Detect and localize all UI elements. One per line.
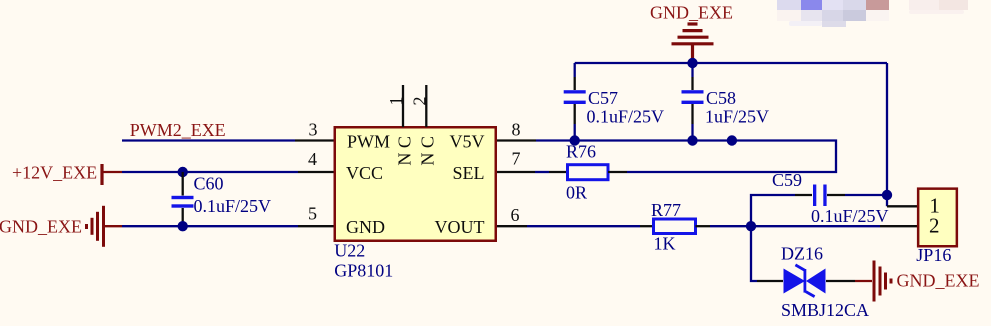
- svg-text:GND_EXE: GND_EXE: [650, 3, 733, 23]
- wire +12V to pin4: [122, 171, 298, 173]
- resistor R77: [640, 200, 710, 254]
- connector JP16: [916, 189, 957, 265]
- junction C59 right: [882, 190, 892, 200]
- svg-text:5: 5: [308, 204, 317, 224]
- wire PWM2_EXE to pin3: [122, 139, 295, 141]
- watermark blur: [777, 0, 968, 27]
- diode DZ16 TVS symbol: [781, 244, 869, 320]
- ground GND_EXE top symbol: [672, 24, 714, 64]
- junction C60 top: [178, 167, 188, 177]
- port +12V_EXE: [12, 163, 122, 186]
- diode DZ16 lead right: [826, 280, 855, 282]
- wire C59 to right rail: [845, 194, 887, 196]
- svg-text:GP8101: GP8101: [334, 260, 393, 280]
- svg-text:3: 3: [309, 119, 318, 139]
- junction C57 bottom: [570, 135, 580, 145]
- svg-text:SMBJ12CA: SMBJ12CA: [781, 300, 869, 320]
- svg-text:U22: U22: [334, 241, 365, 261]
- junction C58 bottom: [687, 135, 697, 145]
- capacitor C58: [682, 63, 770, 141]
- resistor R76: [549, 142, 627, 203]
- capacitor C57: [564, 63, 664, 141]
- svg-text:1K: 1K: [654, 234, 676, 254]
- svg-text:SEL: SEL: [452, 163, 484, 183]
- pin 2 stub top: [425, 85, 427, 127]
- pin 6 stub: [497, 225, 527, 227]
- ground GND_EXE left: [0, 206, 122, 247]
- svg-text:NC: NC: [418, 132, 438, 166]
- capacitor C59: [772, 170, 889, 226]
- svg-text:VOUT: VOUT: [435, 217, 485, 237]
- svg-text:C60: C60: [194, 174, 224, 194]
- svg-text:0R: 0R: [566, 182, 587, 202]
- pin 7 stub: [497, 171, 535, 173]
- svg-text:8: 8: [512, 120, 521, 140]
- svg-text:DZ16: DZ16: [781, 244, 823, 264]
- wire SEL to R76: [535, 171, 549, 173]
- svg-text:7: 7: [512, 149, 521, 169]
- wire VOUT to R77: [527, 225, 640, 227]
- svg-text:GND_EXE: GND_EXE: [897, 271, 980, 291]
- svg-text:4: 4: [308, 149, 317, 169]
- svg-text:PWM2_EXE: PWM2_EXE: [130, 120, 226, 140]
- junction at GND stem: [687, 58, 697, 68]
- pin JP16-2 stub: [880, 225, 918, 227]
- pin 1 stub top: [402, 85, 404, 127]
- svg-text:0.1uF/25V: 0.1uF/25V: [587, 106, 665, 126]
- svg-text:R77: R77: [651, 200, 681, 220]
- svg-text:1: 1: [386, 97, 406, 106]
- svg-text:0.1uF/25V: 0.1uF/25V: [811, 206, 889, 226]
- op-amp U22 chip body: [335, 127, 496, 241]
- pin 5 stub: [298, 225, 334, 227]
- svg-text:GND: GND: [346, 217, 385, 237]
- svg-text:+12V_EXE: +12V_EXE: [12, 163, 97, 183]
- svg-text:NC: NC: [395, 132, 415, 166]
- pin 4 stub: [298, 171, 334, 173]
- diode DZ16 lead left: [757, 280, 783, 282]
- svg-text:VCC: VCC: [346, 163, 383, 183]
- svg-text:C58: C58: [706, 88, 736, 108]
- wire R77 to JP16 pin2: [710, 225, 880, 227]
- svg-text:PWM: PWM: [347, 132, 390, 152]
- wire VOUT node up to C59: [751, 195, 795, 226]
- svg-text:1uF/25V: 1uF/25V: [705, 106, 769, 126]
- wire VOUT node down to DZ16: [751, 226, 757, 281]
- svg-text:2: 2: [409, 97, 429, 106]
- wire V5V rail: [536, 141, 836, 173]
- capacitor C60: [172, 172, 272, 226]
- svg-text:C57: C57: [588, 88, 618, 108]
- svg-text:6: 6: [511, 205, 520, 225]
- wire GND to pin5: [122, 225, 298, 227]
- svg-text:2: 2: [929, 214, 940, 238]
- svg-text:V5V: V5V: [450, 132, 485, 152]
- svg-text:0.1uF/25V: 0.1uF/25V: [194, 196, 272, 216]
- pin 8 stub: [497, 139, 536, 141]
- wire top rail y63: [575, 62, 887, 64]
- pin JP16-1 stub: [887, 205, 918, 207]
- junction VOUT node: [746, 221, 756, 231]
- svg-text:R76: R76: [566, 142, 596, 162]
- ground GND_EXE right: [855, 261, 980, 302]
- wire right rail vertical: [886, 63, 888, 206]
- svg-text:C59: C59: [772, 170, 802, 190]
- svg-text:JP16: JP16: [916, 245, 951, 265]
- junction rail extra: [727, 135, 737, 145]
- junction C60 bottom: [178, 221, 188, 231]
- svg-text:GND_EXE: GND_EXE: [0, 217, 82, 237]
- pin 3 stub: [295, 139, 334, 141]
